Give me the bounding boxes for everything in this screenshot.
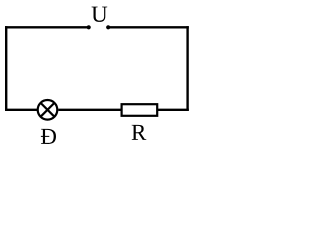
label Đ (lamp): [41, 129, 56, 144]
wire: bottom right segment resistor to corner: [157, 109, 189, 111]
wire: top left segment to terminal: [5, 26, 89, 28]
lamp Đ: circle with X: [38, 100, 58, 120]
wire: left vertical side: [5, 26, 7, 111]
label R (resistor): [132, 125, 147, 140]
wire: top right segment from terminal: [108, 26, 189, 28]
label U (voltage across terminals): [92, 7, 108, 22]
wire: bottom middle segment lamp to resistor: [58, 109, 121, 111]
resistor R: box: [122, 104, 158, 116]
terminal dot right of U gap: [106, 25, 110, 29]
terminal dot left of U gap: [87, 25, 91, 29]
wire: bottom left segment to lamp: [5, 109, 37, 111]
wire: right vertical side: [186, 26, 188, 111]
